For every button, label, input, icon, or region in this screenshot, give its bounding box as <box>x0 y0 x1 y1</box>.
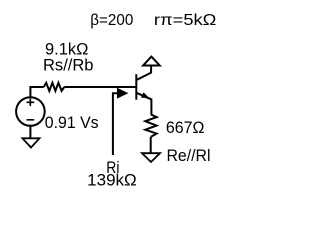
wire from resistor Re//Rl to ground <box>150 137 152 153</box>
wire from resistor Rs//Rb to base of Q1 <box>64 86 136 88</box>
svg-text:139kΩ: 139kΩ <box>87 172 137 190</box>
transistor Q1 base bar <box>135 74 137 100</box>
resistor Rs//Rb zigzag <box>44 83 65 91</box>
transistor Q1 emitter lead <box>137 93 152 115</box>
svg-text:667Ω: 667Ω <box>166 119 205 137</box>
resistor Re//Rl zigzag <box>145 115 156 137</box>
Ri probe wire <box>113 93 119 155</box>
transistor Q1 collector lead <box>137 66 151 80</box>
voltage source VS circle <box>16 97 45 126</box>
plus sign of source <box>27 99 35 107</box>
svg-text:rπ=5kΩ: rπ=5kΩ <box>154 12 217 29</box>
minus sign of source <box>27 119 35 121</box>
Ri arrow head pointing into base <box>117 88 128 99</box>
svg-text:Re//Rl: Re//Rl <box>167 147 211 165</box>
svg-text:β=200: β=200 <box>90 12 133 29</box>
ground under source <box>23 138 40 147</box>
emitter arrow of Q1 <box>141 92 150 98</box>
svg-text:0.91 Vs: 0.91 Vs <box>45 114 99 132</box>
wire from source bottom to ground <box>29 126 31 139</box>
collector open arrow to supply <box>143 57 160 66</box>
svg-text:Rs//Rb: Rs//Rb <box>43 56 94 74</box>
ground at emitter <box>142 153 160 162</box>
wire from source top to resistor Rs//Rb <box>30 87 43 98</box>
